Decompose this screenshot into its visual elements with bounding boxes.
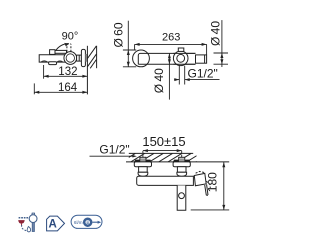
left connector bbox=[138, 172, 148, 176]
svg-text:G1/2": G1/2" bbox=[188, 67, 218, 81]
svg-text:Ø 40: Ø 40 bbox=[152, 68, 166, 93]
90 deg arc bbox=[56, 44, 68, 51]
132 dim bbox=[43, 65, 45, 79]
flange bbox=[81, 49, 85, 66]
spout vertical bbox=[177, 185, 186, 210]
wall surface bbox=[126, 161, 229, 163]
O60 dim bbox=[123, 50, 136, 67]
right flange bbox=[173, 162, 190, 167]
G1/2 dim bbox=[179, 66, 184, 85]
svg-text:180: 180 bbox=[206, 172, 220, 192]
svg-text:132: 132 bbox=[58, 66, 77, 78]
right union pipe bbox=[179, 157, 185, 162]
lever horizontal solid bbox=[50, 50, 55, 55]
valve circle bbox=[64, 52, 77, 65]
263 dim bbox=[135, 44, 207, 55]
icon 6l/m badge bbox=[71, 215, 102, 228]
top view dimensions bbox=[123, 20, 228, 100]
small circle bbox=[177, 54, 185, 62]
body tube bbox=[137, 176, 194, 185]
svg-text:G1/2": G1/2" bbox=[99, 142, 129, 156]
O40 right dim bbox=[214, 53, 229, 64]
svg-text:6l/m: 6l/m bbox=[74, 220, 83, 225]
side view dimensions bbox=[34, 65, 87, 94]
hatches bbox=[122, 153, 210, 162]
middle escutcheon circle bbox=[173, 51, 188, 66]
wall bbox=[86, 46, 88, 95]
lever arm bbox=[205, 185, 208, 196]
handle knob bbox=[194, 173, 206, 185]
O40 mid leader bbox=[168, 53, 170, 99]
wall band top bbox=[129, 152, 193, 154]
body lines across circle bbox=[173, 53, 195, 64]
spout bottom arc bump bbox=[41, 61, 48, 62]
164 dim bbox=[33, 83, 35, 94]
spout body bbox=[39, 55, 67, 62]
lever tip rect on top bbox=[178, 48, 184, 51]
aerator under spout bbox=[49, 62, 57, 65]
left circle O60 bbox=[133, 50, 150, 67]
icon swivel spout bbox=[19, 217, 29, 219]
connector to wall bbox=[77, 55, 82, 61]
svg-text:150±15: 150±15 bbox=[142, 134, 185, 149]
nut gray bbox=[85, 54, 87, 62]
outlet bbox=[196, 55, 207, 63]
svg-text:A: A bbox=[48, 219, 56, 231]
G1/2 leader bbox=[90, 155, 135, 157]
svg-text:Ø 60: Ø 60 bbox=[112, 22, 126, 47]
150+-15 dim bbox=[143, 150, 182, 152]
left union pipe bbox=[140, 157, 146, 162]
left nut bbox=[139, 167, 148, 173]
front view dimensions bbox=[90, 149, 230, 210]
lever up position dashed bbox=[67, 44, 71, 52]
right connector bbox=[177, 172, 187, 176]
svg-text:Ø 40: Ø 40 bbox=[208, 21, 222, 46]
right nut bbox=[177, 167, 186, 173]
icon energy A bbox=[47, 216, 65, 231]
180 dim bbox=[223, 162, 225, 210]
body tube bbox=[138, 53, 195, 64]
svg-text:263: 263 bbox=[162, 32, 180, 44]
left flange bbox=[134, 162, 151, 167]
svg-text:90°: 90° bbox=[62, 31, 79, 43]
svg-text:164: 164 bbox=[58, 82, 78, 94]
